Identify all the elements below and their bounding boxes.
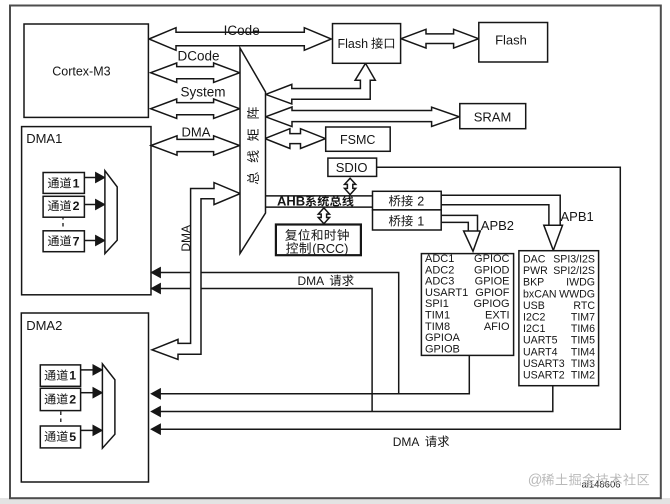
- svg-text:SRAM: SRAM: [474, 110, 512, 125]
- svg-text:SPI2/I2S: SPI2/I2S: [553, 265, 595, 277]
- svg-text:1: 1: [73, 176, 80, 190]
- svg-text:1: 1: [69, 369, 76, 383]
- svg-text:2: 2: [73, 199, 80, 213]
- svg-text:ADC3: ADC3: [425, 276, 454, 288]
- svg-text:ADC2: ADC2: [425, 264, 454, 276]
- svg-text:GPIOD: GPIOD: [474, 264, 510, 276]
- svg-text:DMA: DMA: [298, 274, 325, 288]
- svg-text:Cortex-M3: Cortex-M3: [52, 65, 110, 79]
- svg-text:DMA: DMA: [182, 124, 211, 139]
- svg-text:ADC1: ADC1: [425, 253, 454, 265]
- svg-text:DCode: DCode: [177, 48, 219, 63]
- svg-text:TIM5: TIM5: [571, 335, 595, 347]
- svg-text:2: 2: [417, 194, 424, 208]
- svg-text:APB1: APB1: [561, 209, 594, 224]
- svg-text:GPIOF: GPIOF: [475, 287, 510, 299]
- svg-text:RTC: RTC: [573, 300, 595, 312]
- svg-text:GPIOB: GPIOB: [425, 343, 460, 355]
- svg-text:GPIOG: GPIOG: [473, 298, 509, 310]
- svg-text:APB2: APB2: [481, 218, 514, 233]
- svg-text:I2C1: I2C1: [523, 323, 545, 335]
- svg-text:@: @: [528, 473, 543, 489]
- svg-text:System: System: [180, 85, 225, 100]
- svg-text:TIM7: TIM7: [571, 312, 595, 324]
- svg-text:DMA2: DMA2: [26, 318, 62, 333]
- svg-text:7: 7: [73, 234, 80, 248]
- svg-text:DMA: DMA: [393, 435, 420, 449]
- svg-text:FSMC: FSMC: [340, 133, 375, 147]
- svg-text:TIM3: TIM3: [571, 358, 595, 370]
- svg-text:Flash: Flash: [338, 37, 369, 51]
- svg-text:TIM2: TIM2: [571, 370, 595, 382]
- svg-text:2: 2: [69, 393, 76, 407]
- svg-text:I2C2: I2C2: [523, 312, 545, 324]
- svg-text:UART5: UART5: [523, 335, 558, 347]
- svg-text:5: 5: [69, 430, 76, 444]
- svg-text:ICode: ICode: [224, 23, 260, 38]
- svg-text:USART1: USART1: [425, 287, 468, 299]
- svg-text:GPIOE: GPIOE: [475, 276, 510, 288]
- svg-text:SPI1: SPI1: [425, 298, 449, 310]
- svg-text:1: 1: [417, 214, 424, 228]
- svg-text:IWDG: IWDG: [566, 277, 595, 289]
- svg-text:DMA1: DMA1: [26, 131, 62, 146]
- svg-text:TIM8: TIM8: [425, 321, 450, 333]
- svg-text:GPIOA: GPIOA: [425, 332, 461, 344]
- svg-text:USB: USB: [523, 300, 545, 312]
- svg-text:DAC: DAC: [523, 254, 546, 266]
- svg-text:TIM6: TIM6: [571, 323, 595, 335]
- svg-text:(RCC): (RCC): [312, 241, 348, 256]
- svg-text:PWR: PWR: [523, 265, 548, 277]
- svg-text:UART4: UART4: [523, 346, 558, 358]
- svg-text:USART3: USART3: [523, 358, 565, 370]
- svg-text:AHB: AHB: [277, 193, 305, 208]
- svg-text:SPI3/I2S: SPI3/I2S: [553, 254, 595, 266]
- svg-text:SDIO: SDIO: [336, 160, 368, 175]
- svg-text:GPIOC: GPIOC: [474, 253, 510, 265]
- svg-text:Flash: Flash: [495, 32, 527, 47]
- svg-text:WWDG: WWDG: [559, 288, 595, 300]
- svg-text:DMA: DMA: [179, 225, 193, 252]
- svg-text:AFIO: AFIO: [484, 321, 510, 333]
- svg-text:BKP: BKP: [523, 277, 544, 289]
- svg-text:USART2: USART2: [523, 370, 565, 382]
- svg-text:bxCAN: bxCAN: [523, 288, 557, 300]
- svg-text:EXTI: EXTI: [485, 310, 509, 322]
- svg-text:TIM1: TIM1: [425, 310, 450, 322]
- svg-text:TIM4: TIM4: [571, 346, 595, 358]
